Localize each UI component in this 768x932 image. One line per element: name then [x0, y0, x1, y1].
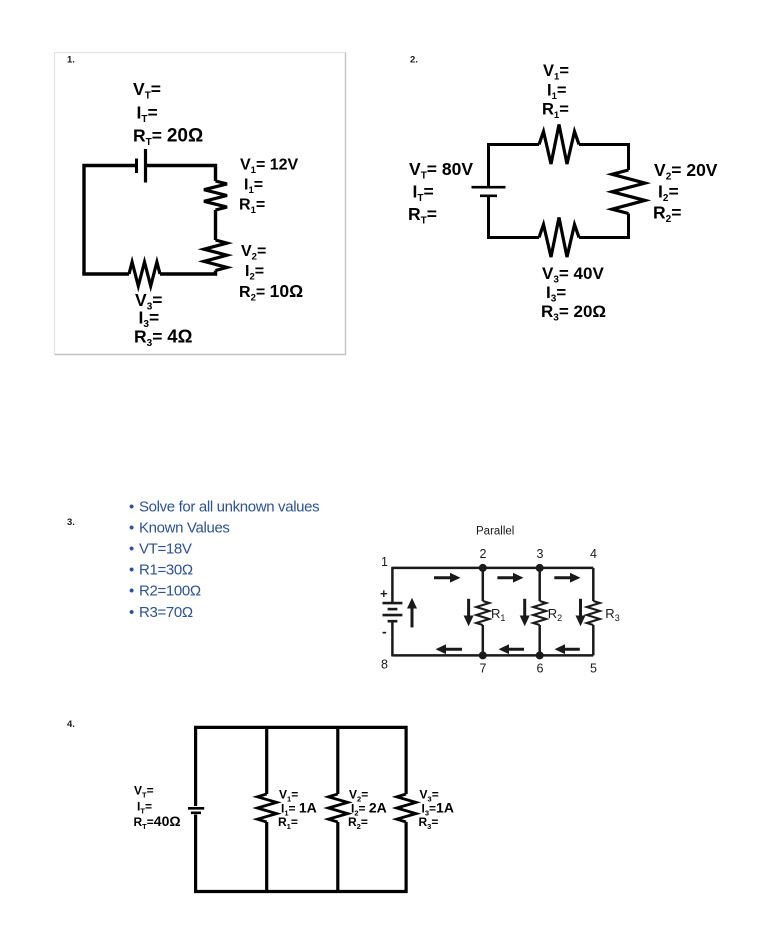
svg-text:R2= 10Ω: R2= 10Ω [239, 281, 303, 304]
resistor R1 [539, 125, 579, 165]
svg-text:IT=: IT= [137, 799, 152, 815]
node R1 labels [278, 788, 317, 832]
wire branch 2 [336, 727, 339, 794]
current arrow top 1-2 [434, 573, 461, 583]
svg-text:VT=18V: VT=18V [139, 541, 192, 558]
svg-text:VT= 80V: VT= 80V [409, 159, 473, 182]
node R2 labels (right) [653, 160, 718, 225]
svg-text:IT=: IT= [137, 103, 158, 126]
svg-text:R2=: R2= [653, 203, 681, 226]
current arrow bottom 6-7 [499, 644, 525, 654]
svg-text:V3= 40V: V3= 40V [542, 264, 604, 286]
resistor R1 [257, 794, 276, 822]
current arrow down R3 [576, 599, 586, 626]
svg-text:2: 2 [480, 547, 487, 561]
svg-text:•: • [129, 520, 134, 537]
resistor R2 [533, 601, 546, 625]
resistor R3 [397, 794, 416, 822]
wire top-right [146, 166, 216, 182]
wire branch R1 [482, 568, 485, 601]
svg-text:R3=70Ω: R3=70Ω [139, 604, 193, 621]
current arrow up (battery) [407, 598, 417, 628]
wire branch R2 [538, 568, 541, 601]
battery B2 long plate [472, 186, 506, 189]
svg-text:I1=: I1= [244, 177, 263, 197]
current arrow bottom 5-6 [555, 644, 580, 654]
battery B3 plates [383, 603, 403, 621]
battery B1 short plate [135, 159, 138, 174]
node VT labels [134, 784, 181, 832]
bullet list [129, 499, 319, 622]
resistor R3 [539, 218, 579, 258]
resistor R2 [612, 170, 645, 214]
resistor R3 [129, 262, 160, 286]
node R1 labels [239, 157, 299, 217]
svg-text:V1= 12V: V1= 12V [240, 157, 299, 177]
junction node 7 [479, 651, 487, 659]
wire right-bottom [579, 214, 629, 238]
svg-text:R3: R3 [605, 606, 619, 623]
current arrow top 3-4 [554, 573, 580, 583]
svg-text:•: • [129, 562, 134, 579]
svg-text:3: 3 [537, 547, 544, 561]
wire left lower [391, 621, 394, 656]
svg-text:V1=: V1= [543, 62, 569, 83]
svg-text:R1: R1 [491, 606, 505, 623]
wire outer rectangle [196, 727, 407, 806]
svg-text:4.: 4. [67, 719, 75, 730]
node R2 labels [239, 243, 303, 304]
svg-text:RT=40Ω: RT=40Ω [134, 813, 181, 831]
wire bottom [392, 654, 593, 657]
svg-text:Solve for all unknown values: Solve for all unknown values [139, 499, 319, 516]
wire left upper [391, 567, 394, 603]
svg-text:I2=: I2= [245, 263, 264, 283]
wire bottom-left [489, 196, 540, 238]
battery B4 long plate [188, 807, 204, 810]
svg-text:RT= 20Ω: RT= 20Ω [133, 125, 203, 148]
current arrow top 2-3 [497, 573, 523, 583]
current arrow bottom 7-8 [436, 644, 463, 654]
resistor R2 [204, 240, 227, 271]
current arrow down R2 [520, 599, 530, 626]
svg-text:R3= 4Ω: R3= 4Ω [134, 325, 193, 349]
wire top-right [579, 145, 629, 171]
svg-text:1: 1 [381, 555, 388, 569]
resistor R2 [328, 794, 347, 822]
svg-text:Known Values: Known Values [139, 520, 230, 537]
svg-text:RT=: RT= [408, 204, 437, 227]
svg-text:•: • [129, 499, 134, 516]
battery B4 short plate [191, 811, 201, 814]
svg-text:I2=: I2= [658, 182, 679, 205]
resistor R1 [476, 601, 489, 625]
node VT labels [408, 159, 473, 227]
svg-text:VT=: VT= [134, 784, 154, 800]
svg-text:V2= 20V: V2= 20V [654, 160, 718, 183]
svg-text:8: 8 [381, 658, 388, 672]
wire right [592, 568, 595, 601]
current arrow down R1 [464, 599, 474, 626]
wire top-left [489, 145, 540, 188]
battery B1 long plate [144, 149, 147, 183]
wire top [392, 567, 593, 570]
junction node 3 [536, 564, 544, 572]
svg-text:3.: 3. [67, 517, 75, 528]
resistor R1 [204, 181, 227, 210]
wire bottom-right [160, 271, 216, 275]
node R3 labels [419, 788, 454, 832]
junction node 6 [536, 651, 544, 659]
node R1 labels (top) [542, 62, 569, 121]
node R2 labels [348, 788, 387, 832]
svg-text:•: • [129, 583, 134, 600]
svg-text:R2: R2 [548, 606, 562, 623]
wire rectangle P3 [392, 567, 593, 657]
svg-text:I1=: I1= [547, 81, 567, 102]
panel frame [55, 53, 346, 355]
svg-text:+: + [380, 586, 388, 601]
battery B2 short plate [480, 195, 497, 198]
wire top-left [84, 166, 136, 275]
svg-text:-: - [382, 624, 387, 640]
svg-text:4: 4 [590, 547, 597, 561]
svg-text:R1=: R1= [542, 101, 569, 122]
svg-text:6: 6 [537, 662, 544, 676]
svg-text:IT=: IT= [413, 182, 434, 205]
node R3 labels (bottom) [541, 264, 606, 323]
svg-text:R3= 20Ω: R3= 20Ω [541, 302, 606, 324]
wire branch 1 [265, 727, 268, 794]
svg-text:1.: 1. [67, 55, 75, 66]
svg-text:R1=30Ω: R1=30Ω [139, 562, 193, 579]
junction node 2 [479, 564, 487, 572]
wire right middle [214, 210, 217, 240]
wire bottom-left [82, 272, 129, 275]
svg-text:5: 5 [590, 662, 597, 676]
svg-text:7: 7 [480, 662, 487, 676]
svg-text:2.: 2. [410, 55, 418, 66]
node VT labels [133, 79, 203, 148]
svg-text:•: • [129, 604, 134, 621]
node R3 labels [134, 290, 193, 349]
svg-text:Parallel: Parallel [476, 526, 514, 538]
resistor R3 [587, 601, 600, 625]
svg-text:•: • [129, 541, 134, 558]
svg-text:R2=100Ω: R2=100Ω [139, 583, 201, 600]
